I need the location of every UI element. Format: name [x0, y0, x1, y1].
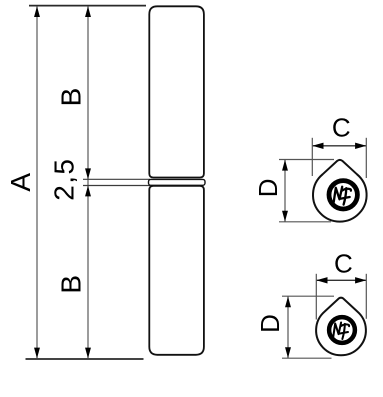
svg-text:C: C	[332, 113, 351, 143]
arrow B bottom	[85, 348, 91, 359]
C extension line right (bottom)	[365, 274, 367, 319]
arrow B top	[85, 6, 91, 17]
D extension line top (top section)	[279, 159, 334, 161]
D dimension line (top)	[284, 160, 286, 222]
teardrop outline (bottom)	[316, 298, 366, 356]
svg-text:D: D	[255, 314, 285, 333]
svg-text:A: A	[5, 173, 36, 192]
NF ring (bottom)	[329, 317, 355, 343]
NF letters (top)	[334, 187, 351, 205]
arrow at top of gap	[85, 168, 91, 179]
hinge middle knuckle bar	[149, 179, 206, 185]
dimension line A	[36, 6, 38, 358]
dimension line B chain	[87, 6, 89, 358]
D extension line bottom (top section)	[279, 221, 331, 223]
extension line top (left view)	[29, 5, 146, 7]
svg-text:B: B	[56, 275, 87, 294]
svg-text:C: C	[334, 249, 353, 279]
arrow at bottom of gap	[85, 186, 91, 197]
arrow A bottom	[34, 348, 40, 359]
arrow A top	[34, 6, 40, 17]
C extension line left (bottom)	[315, 274, 317, 320]
C extension line left (top)	[311, 138, 313, 176]
svg-text:D: D	[253, 178, 283, 197]
hinge top leaf	[149, 6, 204, 177]
C extension line right (top)	[365, 138, 367, 178]
extension line bottom (left view)	[26, 358, 144, 360]
C dimension line (top)	[312, 145, 366, 147]
D extension line top (bottom section)	[282, 295, 334, 297]
hinge bottom leaf	[149, 186, 204, 355]
NF ring (top)	[329, 181, 357, 209]
D dimension line (bottom)	[287, 297, 289, 359]
D extension line bottom (bottom section)	[282, 357, 332, 359]
svg-text:2,5: 2,5	[49, 158, 80, 201]
svg-text:B: B	[56, 88, 87, 107]
NF letters (bottom)	[333, 323, 349, 339]
C dimension line (bottom)	[316, 279, 366, 281]
teardrop outline (top)	[313, 160, 367, 222]
extension lines for 2,5 gap	[83, 178, 150, 180]
